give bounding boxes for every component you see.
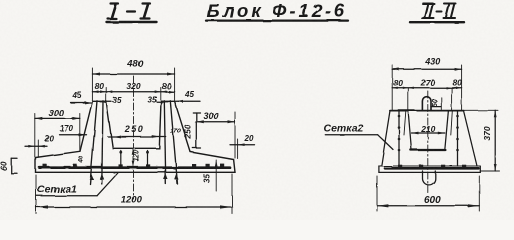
cavity II-II (408, 111, 411, 149)
mesh Сетка1 (bottom rebar mesh) (40, 166, 231, 169)
dim 1200 bottom (35, 175, 37, 214)
rebar end hooks (89, 174, 178, 180)
block I-I outline (36, 101, 236, 172)
mesh Сетка2 bottom band (385, 167, 479, 170)
rebar right wall (164, 101, 166, 184)
dim 370 right (464, 109, 498, 111)
centerline (133, 76, 135, 199)
dim 35 bottom right (215, 160, 217, 191)
mesh Сетка2 verticals with dots (398, 112, 400, 167)
loop wires in slab (120, 151, 122, 168)
centerline (427, 91, 429, 193)
dim 600 bottom (376, 176, 378, 211)
drawing title "Блок Ф-12-6" (206, 0, 347, 21)
dim 80 320 80 (105, 88, 107, 101)
rebar left wall (90, 101, 97, 184)
dim 480 (91, 68, 93, 101)
section title I-I (107, 4, 157, 23)
section title II-II (410, 4, 464, 23)
dim 120 center (132, 149, 135, 167)
outline II-II (390, 110, 464, 112)
top lifting loop (422, 97, 431, 111)
bottom loop (423, 171, 436, 185)
